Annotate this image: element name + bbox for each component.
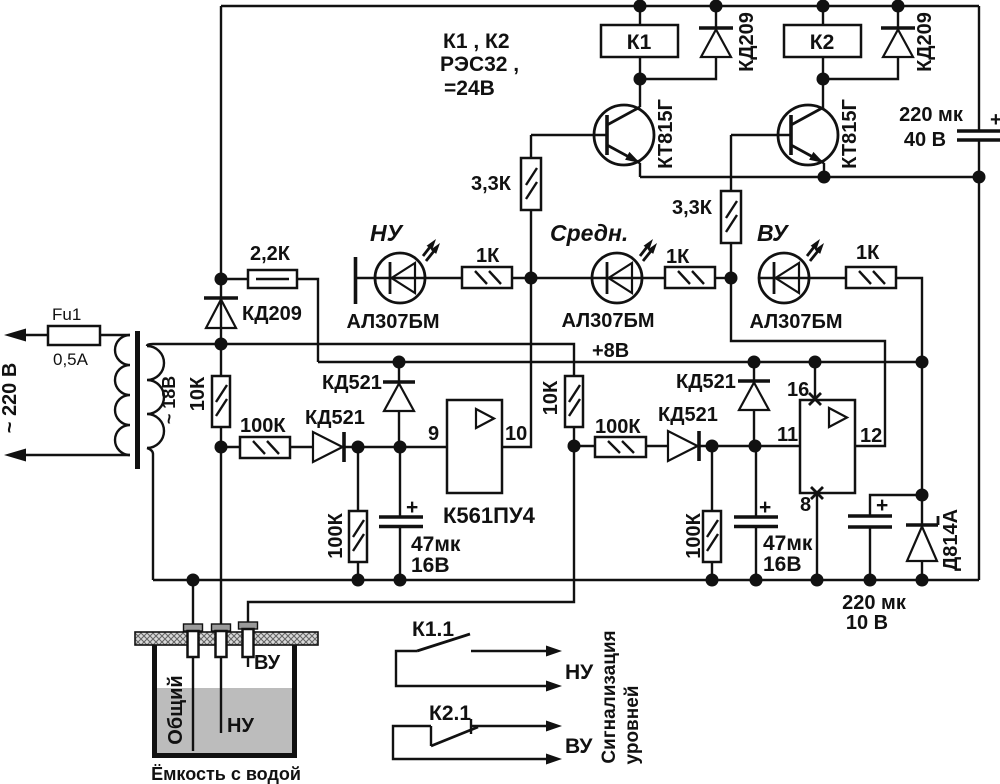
electrode common rod: [192, 657, 194, 751]
LED HL3 AL307BM: [759, 253, 809, 303]
svg-text:16В: 16В: [763, 553, 802, 576]
svg-text:3,3К: 3,3К: [672, 197, 713, 219]
op-amp U1.1 K561PU4: [447, 400, 502, 493]
svg-text:ВУ: ВУ: [565, 735, 593, 758]
svg-text:КД521: КД521: [658, 404, 718, 426]
fuse FU1: [48, 334, 130, 336]
svg-text:3,3К: 3,3К: [471, 173, 512, 195]
arrow mains bottom: [4, 449, 26, 462]
wire 3,3K to base VT1 and down to pin10 node: [530, 135, 532, 158]
electrode VU body: [243, 629, 254, 657]
LED HL2 AL307BM: [592, 253, 642, 303]
tank walls: [155, 645, 295, 756]
svg-text:КД521: КД521: [305, 407, 365, 429]
svg-text:10К: 10К: [187, 376, 209, 411]
node top rail K1: [634, 0, 647, 13]
node rectifier top: [215, 273, 228, 286]
node 0V C4: [864, 574, 877, 587]
resistor R9 100K pulldown left: [357, 447, 359, 511]
svg-text:47мк: 47мк: [411, 533, 461, 556]
capacitor C4 220mk 10V: [870, 495, 922, 516]
svg-text:100К: 100К: [683, 512, 705, 558]
wire secondary bottom to 0V rail: [147, 448, 153, 580]
wire 1K to +8V rail: [896, 278, 922, 362]
node 0V common: [187, 574, 200, 587]
node pin12 led: [725, 272, 738, 285]
tank lid hatched: [135, 632, 318, 645]
svg-text:НУ: НУ: [565, 661, 594, 684]
diode VD6 KD521 horizontal right: [668, 431, 698, 461]
svg-text:+8В: +8В: [592, 340, 629, 362]
node zener C4: [916, 489, 929, 502]
svg-text:40 В: 40 В: [904, 129, 946, 151]
LED HL1 AL307BM: [354, 257, 358, 304]
wire VU electrode line: [248, 446, 574, 624]
node pin11 R10: [568, 440, 581, 453]
wire 3,3K to base VT2: [730, 135, 732, 191]
svg-text:9: 9: [428, 423, 439, 445]
svg-text:10К: 10К: [540, 380, 562, 415]
resistor R2 10K left: [212, 376, 230, 427]
svg-text:0,5А: 0,5А: [53, 350, 89, 369]
svg-text:Ёмкость с водой: Ёмкость с водой: [151, 764, 301, 784]
svg-text:КД521: КД521: [676, 371, 736, 393]
svg-text:+: +: [759, 496, 771, 519]
diode VD5 KD521 clamp left: [398, 362, 400, 382]
wire secondary top to node: [147, 344, 221, 346]
transformer T1 primary winding: [115, 335, 130, 455]
transformer T1 secondary winding: [147, 346, 164, 448]
wire top +24V rail: [221, 5, 979, 7]
svg-text:11: 11: [777, 424, 798, 446]
node pin9 C1: [394, 441, 407, 454]
capacitor C3 220mk 40V: [957, 129, 1000, 133]
diode VD3 KD209 rectifier: [220, 298, 222, 328]
wire left rail from top to rectifier diode: [220, 6, 222, 298]
transformer core: [135, 331, 140, 469]
node emitter rail right: [973, 171, 986, 184]
wire bottom 0V rail: [153, 579, 979, 581]
relay K1: [639, 6, 641, 25]
svg-text:К1: К1: [627, 31, 652, 54]
node top rail VD1: [710, 0, 723, 13]
resistor R10 10K middle: [565, 376, 583, 427]
svg-text:КД209: КД209: [914, 12, 936, 72]
svg-text:НУ: НУ: [227, 715, 254, 737]
svg-text:КД209: КД209: [736, 12, 758, 72]
arrow mains top: [4, 329, 26, 342]
node top rail K2: [817, 0, 830, 13]
node K2 collector: [817, 73, 830, 86]
svg-text:К2.1: К2.1: [429, 702, 471, 725]
wire rectified node line to right: [221, 344, 574, 376]
svg-text:Fu1: Fu1: [52, 305, 81, 324]
electrode VU rod: [247, 657, 249, 667]
svg-text:100К: 100К: [595, 416, 641, 438]
wire NU electrode down from node: [220, 447, 222, 624]
resistor R8 100K input left: [221, 446, 240, 448]
resistor R6 1K: [642, 277, 665, 279]
node K1 collector: [634, 73, 647, 86]
wire +8V rail: [318, 361, 922, 363]
transistor VT1 KT815G: [594, 105, 654, 165]
svg-text:2,2К: 2,2К: [250, 243, 291, 265]
op-amp U1.2 K561PU4: [800, 400, 855, 493]
diode VD7 KD521 clamp right: [753, 362, 755, 381]
transistor VT2 KT815G: [778, 105, 838, 165]
capacitor C2 47mk 16V: [755, 446, 757, 517]
svg-text:100К: 100К: [240, 415, 286, 437]
wire right rail top to cap: [978, 6, 980, 131]
diode VD2 KD209: [897, 6, 899, 28]
svg-text:16В: 16В: [411, 554, 450, 577]
svg-text:1К: 1К: [856, 242, 880, 264]
svg-text:К1.1: К1.1: [412, 618, 454, 641]
svg-text:=24В: =24В: [444, 77, 495, 100]
svg-text:220 мк: 220 мк: [842, 592, 907, 614]
electrode common cap: [184, 624, 203, 631]
node 0V pin8: [811, 574, 824, 587]
svg-text:47мк: 47мк: [763, 532, 813, 555]
node pin9 R9: [352, 441, 365, 454]
wire pin10 to LED node: [502, 278, 531, 447]
node pin11 C2: [749, 440, 762, 453]
svg-text:100К: 100К: [325, 512, 347, 558]
node rectified: [215, 338, 228, 351]
node 0V R12: [706, 574, 719, 587]
svg-text:1К: 1К: [666, 246, 690, 268]
node +8V pin16: [809, 356, 822, 369]
svg-text:+: +: [876, 494, 888, 517]
svg-text:АЛ307БМ: АЛ307БМ: [561, 310, 654, 332]
node 0V zener: [916, 574, 929, 587]
node +8V VD7: [748, 356, 761, 369]
svg-text:Общий: Общий: [165, 675, 187, 744]
wire right rail cap to bottom: [978, 140, 980, 580]
svg-text:КТ815Г: КТ815Г: [655, 99, 677, 169]
svg-text:уровней: уровней: [622, 686, 643, 765]
svg-text:~ 18В: ~ 18В: [159, 376, 179, 425]
electrode VU cap: [239, 622, 258, 629]
node NU divider: [215, 441, 228, 454]
svg-text:АЛ307БМ: АЛ307БМ: [749, 311, 842, 333]
wire common electrode: [192, 580, 194, 624]
svg-text:+: +: [406, 496, 418, 519]
svg-text:16: 16: [787, 379, 809, 401]
svg-text:1К: 1К: [476, 245, 500, 267]
svg-text:АЛ307БМ: АЛ307БМ: [346, 311, 439, 333]
svg-text:10 В: 10 В: [846, 612, 888, 634]
resistor R11 100K middle: [574, 445, 595, 447]
wire base network VT2 from pin 12: [731, 278, 885, 446]
svg-text:Средн.: Средн.: [550, 220, 628, 246]
wire emitter rail: [640, 176, 979, 178]
relay K2: [822, 6, 824, 25]
resistor R1 2,2K: [221, 278, 248, 280]
node pin11 R12: [706, 440, 719, 453]
svg-text:ВУ: ВУ: [254, 652, 281, 674]
electrode common body: [188, 631, 199, 657]
resistor R5 1K: [425, 277, 462, 279]
svg-text:КТ815Г: КТ815Г: [839, 99, 861, 169]
svg-text:НУ: НУ: [370, 220, 405, 246]
resistor R7 1K: [809, 277, 846, 279]
node pin10 led: [525, 272, 538, 285]
svg-text:220 мк: 220 мк: [899, 104, 964, 126]
node +8V right: [916, 356, 929, 369]
svg-text:Д814А: Д814А: [940, 509, 962, 571]
node +8V VD5: [393, 356, 406, 369]
svg-text:К561ПУ4: К561ПУ4: [443, 503, 536, 528]
svg-text:8: 8: [800, 494, 811, 516]
node top rail VD2: [892, 0, 905, 13]
zener VD8 D814A: [921, 362, 923, 525]
electrode NU body: [216, 631, 227, 657]
node 0V C1: [394, 574, 407, 587]
capacitor C1 47mk 16V: [399, 447, 401, 517]
svg-text:РЭС32 ,: РЭС32 ,: [440, 53, 519, 76]
svg-text:~ 220 В: ~ 220 В: [0, 363, 21, 434]
svg-text:+: +: [990, 109, 1000, 131]
electrode NU cap: [212, 624, 231, 631]
svg-text:КД521: КД521: [322, 372, 382, 394]
wire 2,2K to +8V rail: [297, 279, 318, 362]
resistor R4 3,3K right: [721, 191, 741, 243]
electrode NU rod: [220, 657, 222, 733]
svg-text:12: 12: [860, 425, 882, 447]
svg-text:ВУ: ВУ: [757, 220, 790, 246]
svg-text:К2: К2: [810, 31, 835, 54]
svg-text:Сигнализация: Сигнализация: [599, 630, 620, 763]
diode VD1 KD209: [715, 6, 717, 28]
resistor R12 100K pulldown right: [711, 446, 713, 511]
svg-text:К1 , К2: К1 , К2: [443, 30, 510, 53]
node emitter VT2: [818, 171, 831, 184]
node 0V R9: [352, 574, 365, 587]
diode VD4 KD521 horizontal left: [313, 432, 343, 462]
node 0V C2: [750, 574, 763, 587]
water: [157, 688, 292, 753]
svg-text:КД209: КД209: [242, 303, 302, 325]
svg-text:10: 10: [505, 423, 527, 445]
resistor R3 3,3K left: [521, 158, 541, 210]
